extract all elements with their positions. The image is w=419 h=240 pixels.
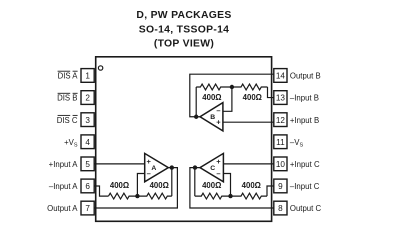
svg-text:400Ω: 400Ω — [202, 181, 221, 190]
svg-text:+Input B: +Input B — [290, 116, 319, 125]
svg-text:SO-14, TSSOP-14: SO-14, TSSOP-14 — [139, 24, 230, 35]
svg-text:400Ω: 400Ω — [202, 93, 221, 102]
svg-text:4: 4 — [85, 138, 90, 147]
wire output B to pin 14 — [190, 74, 274, 117]
svg-text:+Input A: +Input A — [49, 160, 79, 169]
wire output A to pin 7 — [94, 168, 177, 208]
svg-text:2: 2 — [85, 94, 90, 103]
svg-text:+: + — [216, 157, 221, 166]
svg-text:D, PW PACKAGES: D, PW PACKAGES — [136, 10, 231, 21]
junction dot B feedback node — [230, 85, 234, 89]
package outline — [96, 57, 272, 222]
svg-text:(TOP VIEW): (TOP VIEW) — [154, 39, 214, 50]
wire C junction to inverting input — [223, 174, 230, 197]
svg-text:12: 12 — [276, 116, 286, 125]
svg-text:14: 14 — [276, 72, 286, 81]
pin 14 — [274, 69, 287, 83]
svg-text:11: 11 — [276, 138, 285, 147]
svg-text:9: 9 — [278, 182, 283, 191]
pin 1 indicator — [98, 66, 102, 70]
svg-text:5: 5 — [85, 160, 90, 169]
pin 4 label +Vs — [64, 138, 78, 149]
junction dot A feedback node — [135, 194, 139, 198]
svg-text:400Ω: 400Ω — [110, 181, 129, 190]
pin 1 label DIS A — [58, 71, 79, 80]
pin 10 — [274, 157, 287, 171]
pin 1 — [81, 69, 94, 83]
svg-text:10: 10 — [276, 160, 286, 169]
svg-text:DIS A: DIS A — [58, 72, 79, 81]
junction dot output B — [194, 115, 198, 119]
wire B junction to inverting input — [223, 87, 232, 111]
pin 12 — [274, 113, 287, 127]
svg-text:–Input C: –Input C — [290, 182, 320, 191]
svg-text:400Ω: 400Ω — [242, 181, 261, 190]
svg-text:+Input C: +Input C — [290, 160, 320, 169]
svg-text:–: – — [216, 169, 220, 178]
pin 9 — [274, 179, 287, 193]
svg-text:400Ω: 400Ω — [243, 93, 262, 102]
svg-text:–Input A: –Input A — [49, 182, 78, 191]
op-amp B — [200, 103, 223, 131]
svg-text:3: 3 — [85, 116, 90, 125]
resistor RB1 400 ohm — [196, 84, 232, 90]
pin 4 — [81, 135, 94, 149]
pin 13 — [274, 91, 287, 105]
junction dot output A — [170, 165, 174, 169]
svg-text:+: + — [147, 157, 152, 166]
wire -input A to feedback node — [137, 174, 144, 197]
wire pin 12 to +input B — [223, 121, 274, 123]
wire pin 6 to RA1 — [94, 186, 108, 196]
pin 8 — [274, 201, 287, 215]
svg-text:8: 8 — [278, 204, 283, 213]
junction dot C feedback node — [228, 194, 232, 198]
svg-text:–Input B: –Input B — [290, 94, 319, 103]
resistor RC1 400 ohm — [195, 193, 231, 199]
pin 7 — [81, 201, 94, 215]
pin 2 label DIS B — [57, 93, 77, 102]
svg-text:DIS C: DIS C — [57, 116, 78, 125]
wire pin 5 to +input A — [94, 163, 145, 165]
svg-text:DIS B: DIS B — [57, 94, 77, 103]
svg-text:+: + — [216, 118, 221, 127]
wire output C to pin 8 — [190, 168, 274, 208]
svg-text:1: 1 — [85, 72, 90, 81]
svg-text:7: 7 — [85, 204, 90, 213]
svg-text:A: A — [151, 165, 156, 172]
wire feedback C — [194, 168, 196, 197]
resistor RB2 400 ohm — [232, 84, 268, 90]
svg-text:–: – — [147, 169, 151, 178]
svg-text:C: C — [210, 165, 215, 172]
svg-text:6: 6 — [85, 182, 90, 191]
resistor RA1 400 ohm — [109, 193, 138, 199]
svg-text:Output B: Output B — [290, 72, 321, 81]
pin 5 — [81, 157, 94, 171]
junction dot output C — [193, 165, 197, 169]
pin 6 — [81, 179, 94, 193]
wire RA2 to output A — [171, 168, 173, 197]
pin 3 — [81, 113, 94, 127]
pin 3 label DIS C — [57, 115, 78, 124]
wire RC2 to pin 9 — [267, 186, 274, 196]
wire RB2 to pin 13 — [268, 87, 274, 98]
svg-text:13: 13 — [276, 94, 286, 103]
svg-text:Output A: Output A — [47, 204, 78, 213]
op-amp A — [145, 153, 169, 181]
pin 2 — [81, 91, 94, 105]
svg-text:B: B — [210, 114, 215, 121]
svg-text:–: – — [216, 106, 220, 115]
wire pin 10 to +input C — [223, 163, 273, 165]
wire feedback B — [195, 87, 197, 117]
title — [136, 10, 231, 50]
resistor RC2 400 ohm — [231, 193, 268, 199]
svg-text:Output C: Output C — [290, 204, 322, 213]
op-amp C — [200, 153, 223, 181]
resistor RA2 400 ohm — [137, 193, 171, 199]
svg-text:400Ω: 400Ω — [150, 181, 169, 190]
pin 11 — [274, 135, 287, 149]
